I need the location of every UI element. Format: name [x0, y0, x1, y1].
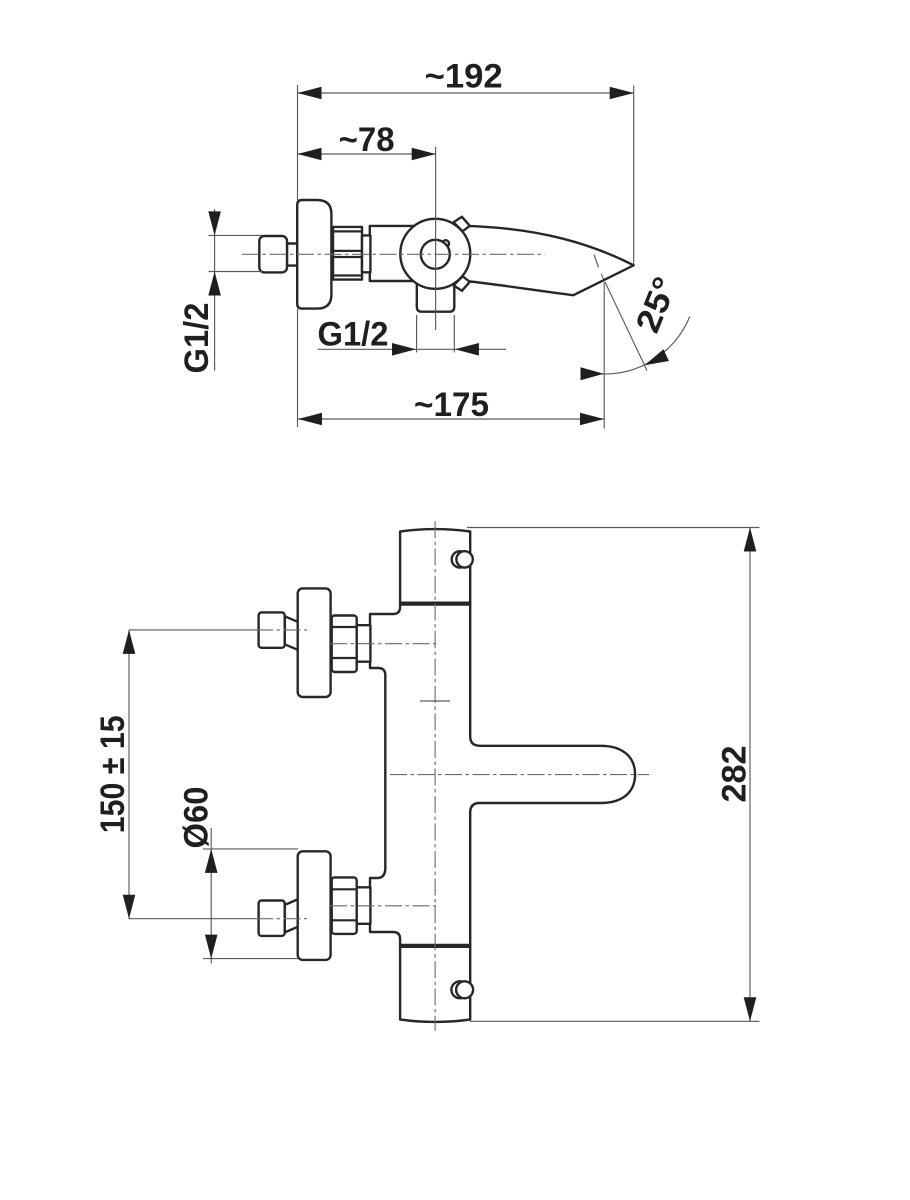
top wall flange (front view) [298, 588, 331, 697]
dimension 282 extension top [467, 527, 760, 529]
bottom screw left circle [451, 981, 468, 998]
svg-text:~175: ~175 [414, 386, 489, 424]
25 degree arc [589, 317, 690, 375]
25 degree arc arrow left [581, 367, 604, 380]
G1/2 middle arrow right [455, 343, 479, 356]
top inlet axis centerline [330, 643, 436, 645]
svg-text:282: 282 [716, 746, 754, 803]
bottom knob shoulder [399, 944, 471, 948]
bottom screw right circle [456, 981, 473, 998]
25 degree arc arrow right [645, 349, 669, 365]
dimension 282 line [749, 528, 751, 1022]
svg-text:G1/2: G1/2 [318, 316, 389, 354]
bottom wall flange (front view) [298, 851, 331, 960]
dimension G1/2 left vertical line [214, 209, 216, 371]
eccentric connector (side view) [259, 236, 287, 272]
svg-text:G1/2: G1/2 [178, 303, 216, 374]
vertical centerline (front view) [434, 521, 436, 1031]
dimension 282 arrow bottom [744, 997, 757, 1021]
faucet body (front view) [370, 604, 635, 946]
knob tab upper [454, 217, 470, 232]
bottom eccentric neck [285, 899, 298, 932]
left stem (into flange) [287, 244, 299, 266]
G1/2 left arrow bottom [208, 272, 221, 296]
dimension ~175 line [298, 418, 604, 420]
bottom wall axis centerline [256, 918, 307, 920]
svg-text:~192: ~192 [425, 58, 503, 96]
dimension 150±15 extension top (wall axis) [129, 629, 256, 631]
bottom knob (front view) [400, 946, 470, 1022]
spout axis centerline [390, 774, 649, 776]
dimension 150±15 extension bottom (wall axis) [129, 918, 256, 920]
svg-text:~78: ~78 [339, 121, 395, 159]
G1/2 left arrow top [208, 211, 221, 235]
wall flange (side view) [297, 200, 331, 309]
bottom inlet axis centerline [330, 905, 436, 907]
dimension ~192 extension left [297, 85, 299, 200]
dimension 150±15 arrow top [123, 630, 136, 654]
dimension 150±15 line [128, 630, 130, 919]
G1/2 middle arrow left [392, 343, 416, 356]
top screw left circle [452, 551, 468, 567]
dimension ~175 arrow right [580, 413, 604, 426]
25 degree reference line [594, 255, 647, 371]
hex nut facet lines [333, 231, 362, 275]
centerline (horizontal axis of side view) [242, 253, 545, 255]
dimension ~78 line [298, 153, 436, 155]
dimension Ø60 line [210, 828, 212, 964]
25 degree vertical extension [603, 282, 605, 429]
dimension Ø60 extension top [203, 848, 298, 850]
top wall axis centerline [256, 629, 307, 631]
dimension ~78 arrow left [298, 148, 322, 161]
temperature knob circle (side view) [400, 219, 470, 289]
center mark on body [420, 700, 450, 702]
dimension ~78 extension right [435, 147, 437, 330]
bottom hex nut (front view) [332, 877, 357, 934]
dimension ~192 extension right [633, 86, 635, 265]
G1/2 left extension bottom [209, 271, 262, 273]
dimension 282 arrow top [744, 528, 757, 552]
knob inner circle [421, 240, 450, 269]
dimension ~192 line [298, 92, 634, 94]
knob inner nub [442, 240, 449, 247]
top knob (front view) [400, 529, 470, 604]
dimension Ø60 arrow bottom [205, 935, 218, 959]
dimension 150±15 arrow bottom [123, 895, 136, 919]
dimension ~78 arrow right [412, 148, 436, 161]
bottom union nut (square) [259, 901, 285, 936]
knob tab lower [454, 276, 470, 291]
bottom stem [357, 887, 371, 924]
dimension ~175 left extension [297, 309, 299, 427]
dimension 282 extension bottom [470, 1020, 760, 1022]
top eccentric neck [285, 616, 298, 650]
hex nut (side view) [333, 227, 362, 280]
dimension ~175 arrow left [298, 413, 322, 426]
top hex nut facets [332, 627, 357, 658]
dimension Ø60 arrow top [205, 849, 218, 873]
G1/2 middle tick right [453, 315, 455, 353]
body + spout (side view) [370, 226, 634, 295]
top knob shoulder [399, 601, 471, 605]
dimension Ø60 extension bottom [203, 958, 298, 960]
stem between nut and body [362, 235, 370, 272]
G1/2 left extension top [209, 234, 262, 236]
shower outlet (side view) [417, 268, 455, 312]
top screw right circle [456, 551, 472, 567]
dimension G1/2 middle line [318, 348, 506, 350]
svg-text:150 ± 15: 150 ± 15 [94, 715, 132, 833]
top hex nut (front view) [332, 616, 357, 673]
bottom hex nut facets [332, 889, 357, 920]
svg-text:Ø60: Ø60 [178, 787, 216, 849]
dimension ~192 arrow left [298, 87, 322, 100]
dimension ~192 arrow right [610, 87, 634, 100]
G1/2 middle tick left [416, 315, 418, 353]
top union nut (square) [259, 612, 285, 647]
top stem [357, 625, 371, 662]
